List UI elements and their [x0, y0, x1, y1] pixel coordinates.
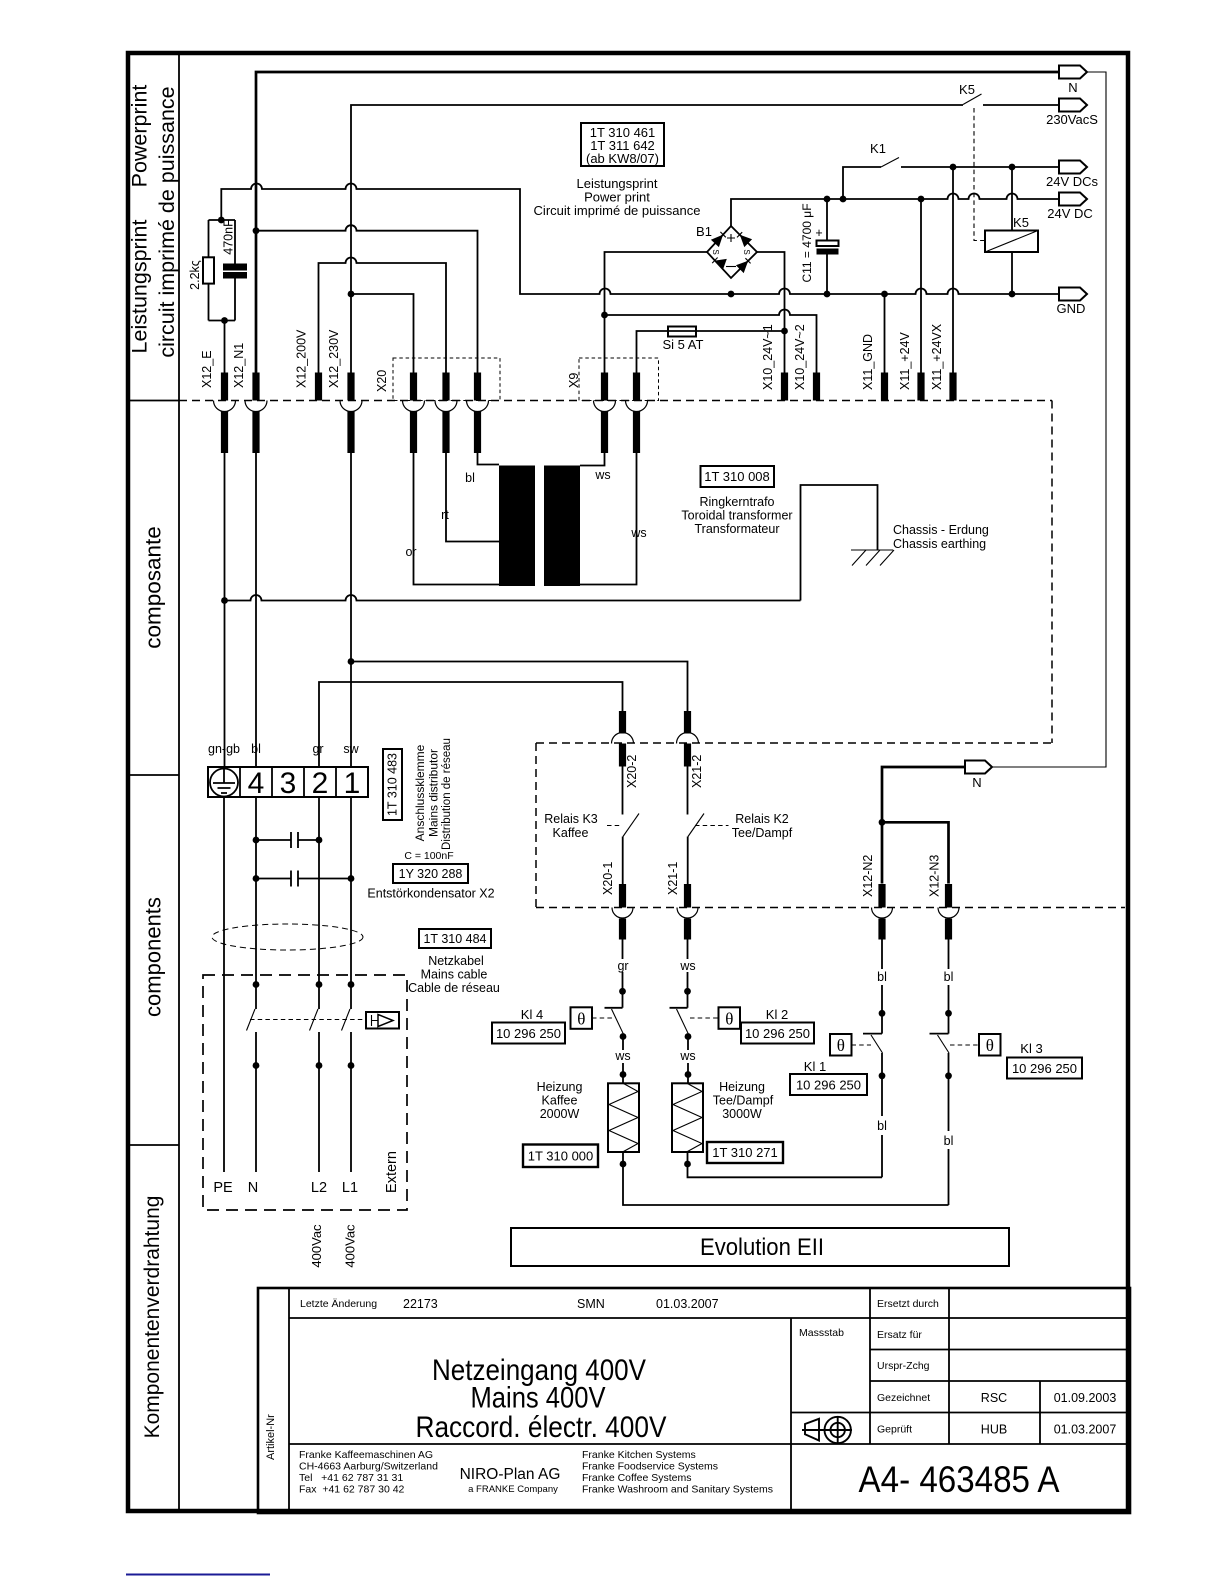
- node K1 feed: [840, 196, 847, 203]
- thermal switch Kl3: [930, 1033, 949, 1035]
- dashed region line bottom: [536, 907, 1125, 909]
- wire Kl1 down: [881, 1053, 883, 1177]
- node C11 top: [824, 196, 831, 203]
- dashed K2 link: [695, 825, 729, 827]
- chassis ground symbol: [851, 550, 894, 566]
- wire heater2 to Kl1: [688, 1152, 883, 1177]
- wire RC bottom bar: [209, 320, 236, 322]
- svg-text:ws: ws: [679, 959, 695, 973]
- dashed region line top: [179, 400, 1052, 402]
- arrow N out: [1059, 66, 1087, 79]
- wire N feed thick: [882, 767, 965, 884]
- wire PE down: [223, 797, 225, 1172]
- svg-text:Si 5 AT: Si 5 AT: [663, 337, 704, 352]
- svg-text:Ringkerntrafo: Ringkerntrafo: [699, 495, 774, 509]
- connector X9 pin2: [626, 373, 648, 454]
- switch K1 blade: [881, 158, 899, 168]
- box part numbers 1T310461: [581, 123, 664, 166]
- B1 diode BR: [736, 261, 748, 273]
- svg-text:K1: K1: [870, 141, 886, 156]
- svg-text:rt: rt: [441, 508, 449, 522]
- dashed K5 link: [974, 108, 985, 241]
- svg-text:Franke Kitchen Systems: Franke Kitchen Systems: [582, 1449, 696, 1461]
- svg-text:1T 310 483: 1T 310 483: [386, 753, 400, 816]
- svg-text:θ: θ: [577, 1010, 585, 1029]
- row line gezeichnet: [791, 1412, 1130, 1414]
- svg-text:X12_200V: X12_200V: [295, 329, 309, 388]
- wire L2 down lower: [318, 1032, 320, 1172]
- svg-text:400Vac: 400Vac: [309, 1224, 324, 1268]
- svg-text:Geprüft: Geprüft: [877, 1424, 912, 1436]
- svg-text:GND: GND: [1057, 301, 1086, 316]
- wire X12_N1 down: [255, 453, 257, 767]
- node earth branch: [221, 597, 228, 604]
- svg-text:composante: composante: [141, 526, 166, 649]
- wire ws2 to core: [580, 453, 637, 585]
- svg-text:components: components: [141, 897, 166, 1017]
- connector X20-2: [612, 711, 634, 767]
- wire N down lower: [255, 1032, 257, 1172]
- wire thin N loop: [992, 72, 1106, 767]
- node L2 bottom extern: [316, 1062, 323, 1069]
- svg-text:Ersatz für: Ersatz für: [877, 1329, 922, 1341]
- svg-text:L1: L1: [342, 1180, 358, 1196]
- svg-text:ws: ws: [630, 526, 646, 540]
- connector X11_+24V: [917, 373, 924, 401]
- svg-text:Mains distributor: Mains distributor: [427, 749, 441, 837]
- wire X12_230V down: [350, 453, 352, 767]
- wire K5 coil bottom: [1011, 252, 1013, 294]
- box 10 296 250 Kl3: [1007, 1058, 1082, 1079]
- wire X12-N3 down: [948, 939, 950, 1034]
- wire or to core: [414, 453, 536, 585]
- node N split: [879, 819, 886, 826]
- box 10 296 250 Kl4: [492, 1023, 565, 1044]
- dashed box Extern: [203, 975, 407, 1210]
- svg-text:N: N: [248, 1180, 258, 1196]
- svg-text:Leistungsprint: Leistungsprint: [128, 220, 152, 354]
- svg-text:Evolution EII: Evolution EII: [700, 1234, 824, 1261]
- svg-text:bl: bl: [944, 970, 954, 984]
- svg-text:Chassis earthing: Chassis earthing: [893, 537, 986, 551]
- dashed Kl1 link: [852, 1044, 872, 1046]
- blue underline mark: [126, 1574, 270, 1576]
- projection symbol: [802, 1417, 852, 1444]
- svg-text:10 296 250: 10 296 250: [1012, 1061, 1077, 1076]
- svg-text:Kl 3: Kl 3: [1020, 1041, 1042, 1056]
- sidebar row line 3: [130, 1144, 179, 1146]
- capacitor X2a row: [256, 832, 319, 848]
- svg-text:3: 3: [280, 767, 297, 800]
- wire X12-N2 down: [881, 939, 883, 1034]
- wire chassis earth riser: [801, 485, 878, 601]
- box 1T 310 008: [701, 466, 775, 487]
- thermal switch Kl4: [605, 1007, 623, 1009]
- actuator box: [366, 1012, 399, 1029]
- svg-text:bl: bl: [944, 1134, 954, 1148]
- svg-text:gn-gb: gn-gb: [208, 742, 240, 756]
- theta box Kl2: [719, 1007, 741, 1029]
- svg-text:1T 310 000: 1T 310 000: [528, 1149, 594, 1164]
- capacitor C11: [826, 199, 828, 294]
- wire B1 top to 24VDC rail: [731, 194, 1059, 226]
- wire X12_230V to X20 pin1: [351, 294, 414, 373]
- connector X20-1: [612, 884, 633, 940]
- connector X12_E: [214, 373, 236, 454]
- box 1T 310 484: [419, 929, 491, 948]
- connector X20 pin3: [467, 373, 489, 454]
- row line geprueft: [289, 1443, 1130, 1445]
- node L1 top extern: [348, 981, 355, 988]
- wire rt to core: [446, 453, 499, 542]
- svg-text:1Y 320 288: 1Y 320 288: [399, 867, 463, 881]
- svg-text:Anschlussklemme: Anschlussklemme: [413, 744, 427, 841]
- svg-text:Entstörkondensator X2: Entstörkondensator X2: [367, 887, 494, 901]
- node Kl4 top: [619, 988, 626, 995]
- svg-text:Franke Washroom and Sanitary S: Franke Washroom and Sanitary Systems: [582, 1484, 773, 1496]
- column line dates: [1039, 1381, 1041, 1444]
- svg-text:N: N: [1068, 80, 1077, 95]
- svg-text:sw: sw: [343, 742, 359, 756]
- svg-text:Toroidal transformer: Toroidal transformer: [681, 509, 792, 523]
- theta box Kl4: [571, 1007, 593, 1029]
- B1 diode TR: [740, 235, 752, 247]
- svg-text:N: N: [972, 775, 981, 790]
- svg-text:gr: gr: [617, 959, 628, 973]
- wire K1 to arrow: [901, 166, 1059, 168]
- svg-text:Letzte Änderung: Letzte Änderung: [300, 1298, 377, 1310]
- wire L1 down lower: [350, 1032, 352, 1172]
- svg-text:S: S: [742, 249, 751, 254]
- transformer core right: [544, 466, 580, 587]
- svg-text:3000W: 3000W: [722, 1107, 762, 1121]
- svg-text:X20-1: X20-1: [601, 862, 615, 895]
- dashed group box X9: [579, 358, 659, 401]
- dashed K3 link: [607, 825, 620, 827]
- node L1 bottom extern: [348, 1062, 355, 1069]
- dashed Kl2 link: [690, 1017, 719, 1019]
- connector X12_200V: [315, 373, 322, 401]
- svg-text:a FRANKE Company: a FRANKE Company: [468, 1484, 558, 1495]
- B1 plus mark: [727, 234, 735, 242]
- svg-text:Chassis - Erdung: Chassis - Erdung: [893, 523, 989, 537]
- svg-text:X20-2: X20-2: [625, 755, 639, 788]
- node RC bottom: [221, 317, 228, 324]
- column line massstab: [790, 1318, 792, 1513]
- svg-text:Distribution de réseau: Distribution de réseau: [441, 738, 453, 850]
- svg-text:10 296 250: 10 296 250: [496, 1026, 561, 1041]
- wire bl to core: [478, 453, 500, 465]
- connector X10_24V~2: [813, 373, 820, 401]
- svg-text:ws: ws: [594, 468, 610, 482]
- node X12_N1 branch: [253, 227, 260, 234]
- wire N down upper: [255, 797, 257, 1009]
- svg-text:ws: ws: [679, 1049, 695, 1063]
- arrow 230VacS out: [1059, 99, 1087, 112]
- arrow GND out: [1059, 288, 1087, 301]
- svg-text:400Vac: 400Vac: [343, 1224, 358, 1268]
- wire X12_200V to X20 pin2: [319, 258, 447, 374]
- column line labels: [869, 1288, 871, 1444]
- wire B1 right down: [757, 252, 785, 373]
- svg-text:Urspr-Zchg: Urspr-Zchg: [877, 1360, 930, 1372]
- wire heater1 to Kl3: [623, 1152, 949, 1205]
- svg-text:Artikel-Nr: Artikel-Nr: [265, 1414, 277, 1460]
- node Kl4 bottom: [620, 1033, 627, 1040]
- arrow 24V DC out: [1059, 193, 1087, 206]
- terminal strip box: [208, 767, 368, 797]
- svg-text:Franke Coffee Systems: Franke Coffee Systems: [582, 1472, 692, 1484]
- theta box Kl3: [979, 1034, 1001, 1056]
- svg-text:Mains 400V: Mains 400V: [471, 1382, 606, 1415]
- dashed relay box left: [535, 743, 537, 908]
- row line ersatz: [870, 1349, 1130, 1351]
- svg-text:1T 310 008: 1T 310 008: [704, 469, 770, 484]
- wire X11_+24V riser: [920, 199, 922, 373]
- wire X9pin1 to X10_24V~2: [605, 310, 817, 374]
- connector X20 pin2: [435, 373, 457, 454]
- connector X12-N3: [938, 884, 959, 940]
- svg-text:X12_230V: X12_230V: [327, 329, 341, 388]
- svg-text:22173: 22173: [403, 1297, 438, 1311]
- B1 minus mark: [726, 266, 736, 268]
- svg-text:2000W: 2000W: [540, 1107, 580, 1121]
- svg-text:470nF: 470nF: [222, 219, 236, 255]
- node L2 top extern: [316, 981, 323, 988]
- svg-text:Kl 2: Kl 2: [766, 1007, 788, 1022]
- svg-text:Heizung: Heizung: [719, 1080, 765, 1094]
- wire Kl2 to heater: [687, 1037, 689, 1084]
- svg-text:C11 = 4700 μF: C11 = 4700 μF: [800, 203, 814, 282]
- svg-text:2.2kς: 2.2kς: [188, 260, 202, 290]
- svg-text:+: +: [815, 226, 822, 240]
- B1 diode BL: [715, 259, 727, 270]
- svg-text:230VacS: 230VacS: [1046, 112, 1098, 127]
- svg-text:Kaffee: Kaffee: [542, 1094, 578, 1108]
- box 1T 310 483: [383, 749, 402, 820]
- box 10 296 250 Kl1: [790, 1074, 867, 1095]
- resistor 2.2k: [208, 220, 210, 321]
- svg-text:or: or: [405, 545, 416, 559]
- row line 1: [289, 1317, 1130, 1319]
- svg-text:01.03.2007: 01.03.2007: [656, 1297, 719, 1311]
- svg-text:X11_+24VX: X11_+24VX: [930, 323, 944, 390]
- sidebar divider line: [178, 53, 180, 1511]
- svg-text:Kaffee: Kaffee: [553, 826, 589, 840]
- svg-text:circuit imprimé de puissance: circuit imprimé de puissance: [155, 86, 179, 357]
- wire RC top bar: [209, 219, 236, 221]
- svg-text:(ab KW8/07): (ab KW8/07): [586, 151, 659, 166]
- svg-text:PE: PE: [213, 1180, 233, 1196]
- svg-text:θ: θ: [986, 1036, 994, 1055]
- wire L1 down upper: [350, 797, 352, 1009]
- svg-text:10 296 250: 10 296 250: [796, 1078, 861, 1093]
- svg-text:Fax +41 62 787 30 42: Fax +41 62 787 30 42: [299, 1484, 405, 1496]
- wire X9 pin2 to fuse: [637, 331, 669, 373]
- wire N to X12-N3: [882, 822, 949, 883]
- transformer core left: [499, 466, 535, 587]
- svg-text:CH-4663 Aarburg/Switzerland: CH-4663 Aarburg/Switzerland: [299, 1461, 438, 1473]
- svg-text:Gezeichnet: Gezeichnet: [877, 1392, 930, 1404]
- svg-text:2: 2: [312, 767, 329, 800]
- node heater1 bottom: [620, 1161, 627, 1168]
- node RC top: [218, 217, 225, 224]
- svg-text:Ersetzt durch: Ersetzt durch: [877, 1298, 939, 1310]
- svg-text:X10_24V~1: X10_24V~1: [761, 324, 775, 390]
- svg-text:1T 310 484: 1T 310 484: [423, 932, 486, 946]
- dashed cable ellipse: [212, 924, 363, 950]
- wire X12_N1 to X20 pin3: [256, 225, 478, 373]
- svg-text:NIRO-Plan AG: NIRO-Plan AG: [460, 1466, 561, 1483]
- svg-text:X20: X20: [375, 370, 389, 392]
- node 24VDCs X11+24VX: [950, 164, 957, 171]
- svg-text:Transformateur: Transformateur: [695, 522, 780, 536]
- wire X11_+24VX riser: [952, 167, 954, 373]
- switch N blade: [247, 1009, 256, 1031]
- svg-text:bl: bl: [877, 1119, 887, 1133]
- svg-text:Relais K3: Relais K3: [544, 812, 598, 826]
- svg-text:24V DCs: 24V DCs: [1046, 174, 1099, 189]
- fuse Si 5 AT: [668, 327, 696, 337]
- node X11+24V top: [918, 196, 925, 203]
- svg-text:X12_E: X12_E: [200, 350, 214, 388]
- thermal switch Kl2: [670, 1007, 688, 1009]
- connector X21-2: [677, 711, 699, 767]
- svg-text:X11_+24V: X11_+24V: [898, 332, 912, 390]
- border frame: [128, 53, 1128, 1511]
- svg-text:θ: θ: [725, 1010, 733, 1029]
- svg-text:B1: B1: [696, 224, 712, 239]
- heater TeeDampf body: [672, 1083, 703, 1152]
- node Kl1 bottom: [879, 1072, 886, 1079]
- capacitor X2b row: [256, 871, 351, 887]
- switch L1 blade: [342, 1009, 351, 1031]
- arrow N mid: [965, 761, 992, 774]
- svg-text:Relais K2: Relais K2: [735, 812, 789, 826]
- wire earth to chassis: [225, 595, 801, 601]
- svg-text:S: S: [711, 249, 720, 254]
- wire X21-1 down: [687, 940, 689, 1008]
- svg-text:10 296 250: 10 296 250: [745, 1026, 810, 1041]
- wire K5 to 230VacS arrow: [983, 104, 1059, 106]
- dashed relay box top: [536, 742, 1052, 744]
- svg-text:K5: K5: [959, 82, 975, 97]
- wire Kl3 down: [948, 1053, 950, 1205]
- switch K5 blade: [963, 94, 982, 105]
- svg-text:L2: L2: [311, 1180, 327, 1196]
- switch L2 blade: [310, 1009, 319, 1031]
- heater Kaffee body: [608, 1083, 639, 1152]
- svg-text:Kl 4: Kl 4: [521, 1007, 543, 1022]
- node Kl2 top: [684, 988, 691, 995]
- svg-text:SMN: SMN: [577, 1297, 605, 1311]
- svg-text:Komponentenverdrahtung: Komponentenverdrahtung: [141, 1196, 164, 1439]
- svg-text:HUB: HUB: [981, 1423, 1007, 1437]
- dashed Kl3 link: [950, 1044, 979, 1046]
- node fuse out: [781, 328, 788, 335]
- terminal earth symbol: [210, 769, 238, 797]
- svg-text:X9: X9: [567, 373, 581, 388]
- relay coil K5: [985, 231, 1038, 253]
- svg-text:1T 310 271: 1T 310 271: [712, 1145, 778, 1160]
- node sw branch: [348, 658, 355, 665]
- svg-text:Franke Foodservice Systems: Franke Foodservice Systems: [582, 1461, 718, 1473]
- svg-text:bl: bl: [251, 742, 261, 756]
- thermal switch Kl1: [863, 1033, 882, 1035]
- svg-text:Netzkabel: Netzkabel: [428, 954, 484, 968]
- wire X20-1 down: [622, 940, 624, 1008]
- dashed actuator link: [250, 1019, 366, 1021]
- artikel column line: [288, 1288, 290, 1513]
- sidebar row line 2: [130, 774, 179, 776]
- svg-text:Circuit imprimé de puissance: Circuit imprimé de puissance: [534, 203, 701, 218]
- wire B1 left to X9 pin1: [605, 252, 708, 373]
- svg-text:1: 1: [344, 767, 361, 800]
- dashed Kl4 link: [592, 1017, 612, 1019]
- switch K3 contact: [622, 767, 624, 815]
- dashed group box X20: [393, 358, 500, 401]
- node 24VDCs K5coil: [1009, 164, 1016, 171]
- B1 diode TL: [711, 235, 723, 248]
- svg-text:bl: bl: [877, 970, 887, 984]
- wire X11_GND riser: [884, 294, 886, 373]
- svg-text:Mains cable: Mains cable: [421, 968, 488, 982]
- wire ws top to core: [580, 453, 605, 466]
- node heater2 bottom: [684, 1161, 691, 1168]
- wire X12_E down: [224, 453, 226, 767]
- svg-text:X12-N3: X12-N3: [928, 855, 942, 897]
- node Kl2 bottom: [685, 1033, 692, 1040]
- connector X10_24V~1: [781, 373, 788, 401]
- svg-text:X10_24V~2: X10_24V~2: [793, 324, 807, 390]
- dashed region right edge: [1051, 401, 1053, 744]
- svg-text:X21-2: X21-2: [690, 755, 704, 788]
- node GND X11: [881, 291, 888, 298]
- connector X12_230V: [340, 373, 362, 454]
- svg-text:Massstab: Massstab: [799, 1327, 844, 1339]
- wire 230VacS rail: [351, 105, 963, 373]
- svg-text:A4- 463485 A: A4- 463485 A: [859, 1459, 1060, 1500]
- connector X20 pin1: [403, 373, 425, 454]
- svg-text:X21-1: X21-1: [666, 862, 680, 895]
- wire N rail top: [256, 72, 1059, 373]
- svg-text:Tee/Dampf: Tee/Dampf: [713, 1094, 774, 1108]
- column line values: [948, 1288, 950, 1444]
- connector X11_GND: [881, 373, 888, 401]
- svg-text:θ: θ: [837, 1036, 845, 1055]
- box 1T 310 271: [707, 1142, 783, 1163]
- svg-text:X12_N1: X12_N1: [232, 343, 246, 388]
- box 10 296 250 Kl2: [741, 1023, 814, 1044]
- wire K1 riser: [843, 167, 881, 199]
- svg-text:Raccord. électr. 400V: Raccord. électr. 400V: [416, 1411, 667, 1444]
- svg-text:X12-N2: X12-N2: [861, 855, 875, 897]
- node Kl3 bottom: [945, 1072, 952, 1079]
- capacitor 470nF: [234, 220, 236, 321]
- wire earth RC to GND rail: [221, 184, 1059, 295]
- svg-text:Cable de réseau: Cable de réseau: [408, 981, 500, 995]
- connector X12_N1: [245, 373, 267, 454]
- svg-text:01.03.2007: 01.03.2007: [1054, 1423, 1117, 1437]
- node Kl1 top: [879, 1010, 886, 1017]
- svg-text:Powerprint: Powerprint: [128, 85, 152, 188]
- node N top extern: [253, 981, 260, 988]
- svg-text:K5: K5: [1013, 215, 1029, 230]
- node heater2 top: [685, 1071, 692, 1078]
- node GND K5coil: [1009, 291, 1016, 298]
- node Kl3 top: [945, 1010, 952, 1017]
- svg-text:Tee/Dampf: Tee/Dampf: [732, 826, 793, 840]
